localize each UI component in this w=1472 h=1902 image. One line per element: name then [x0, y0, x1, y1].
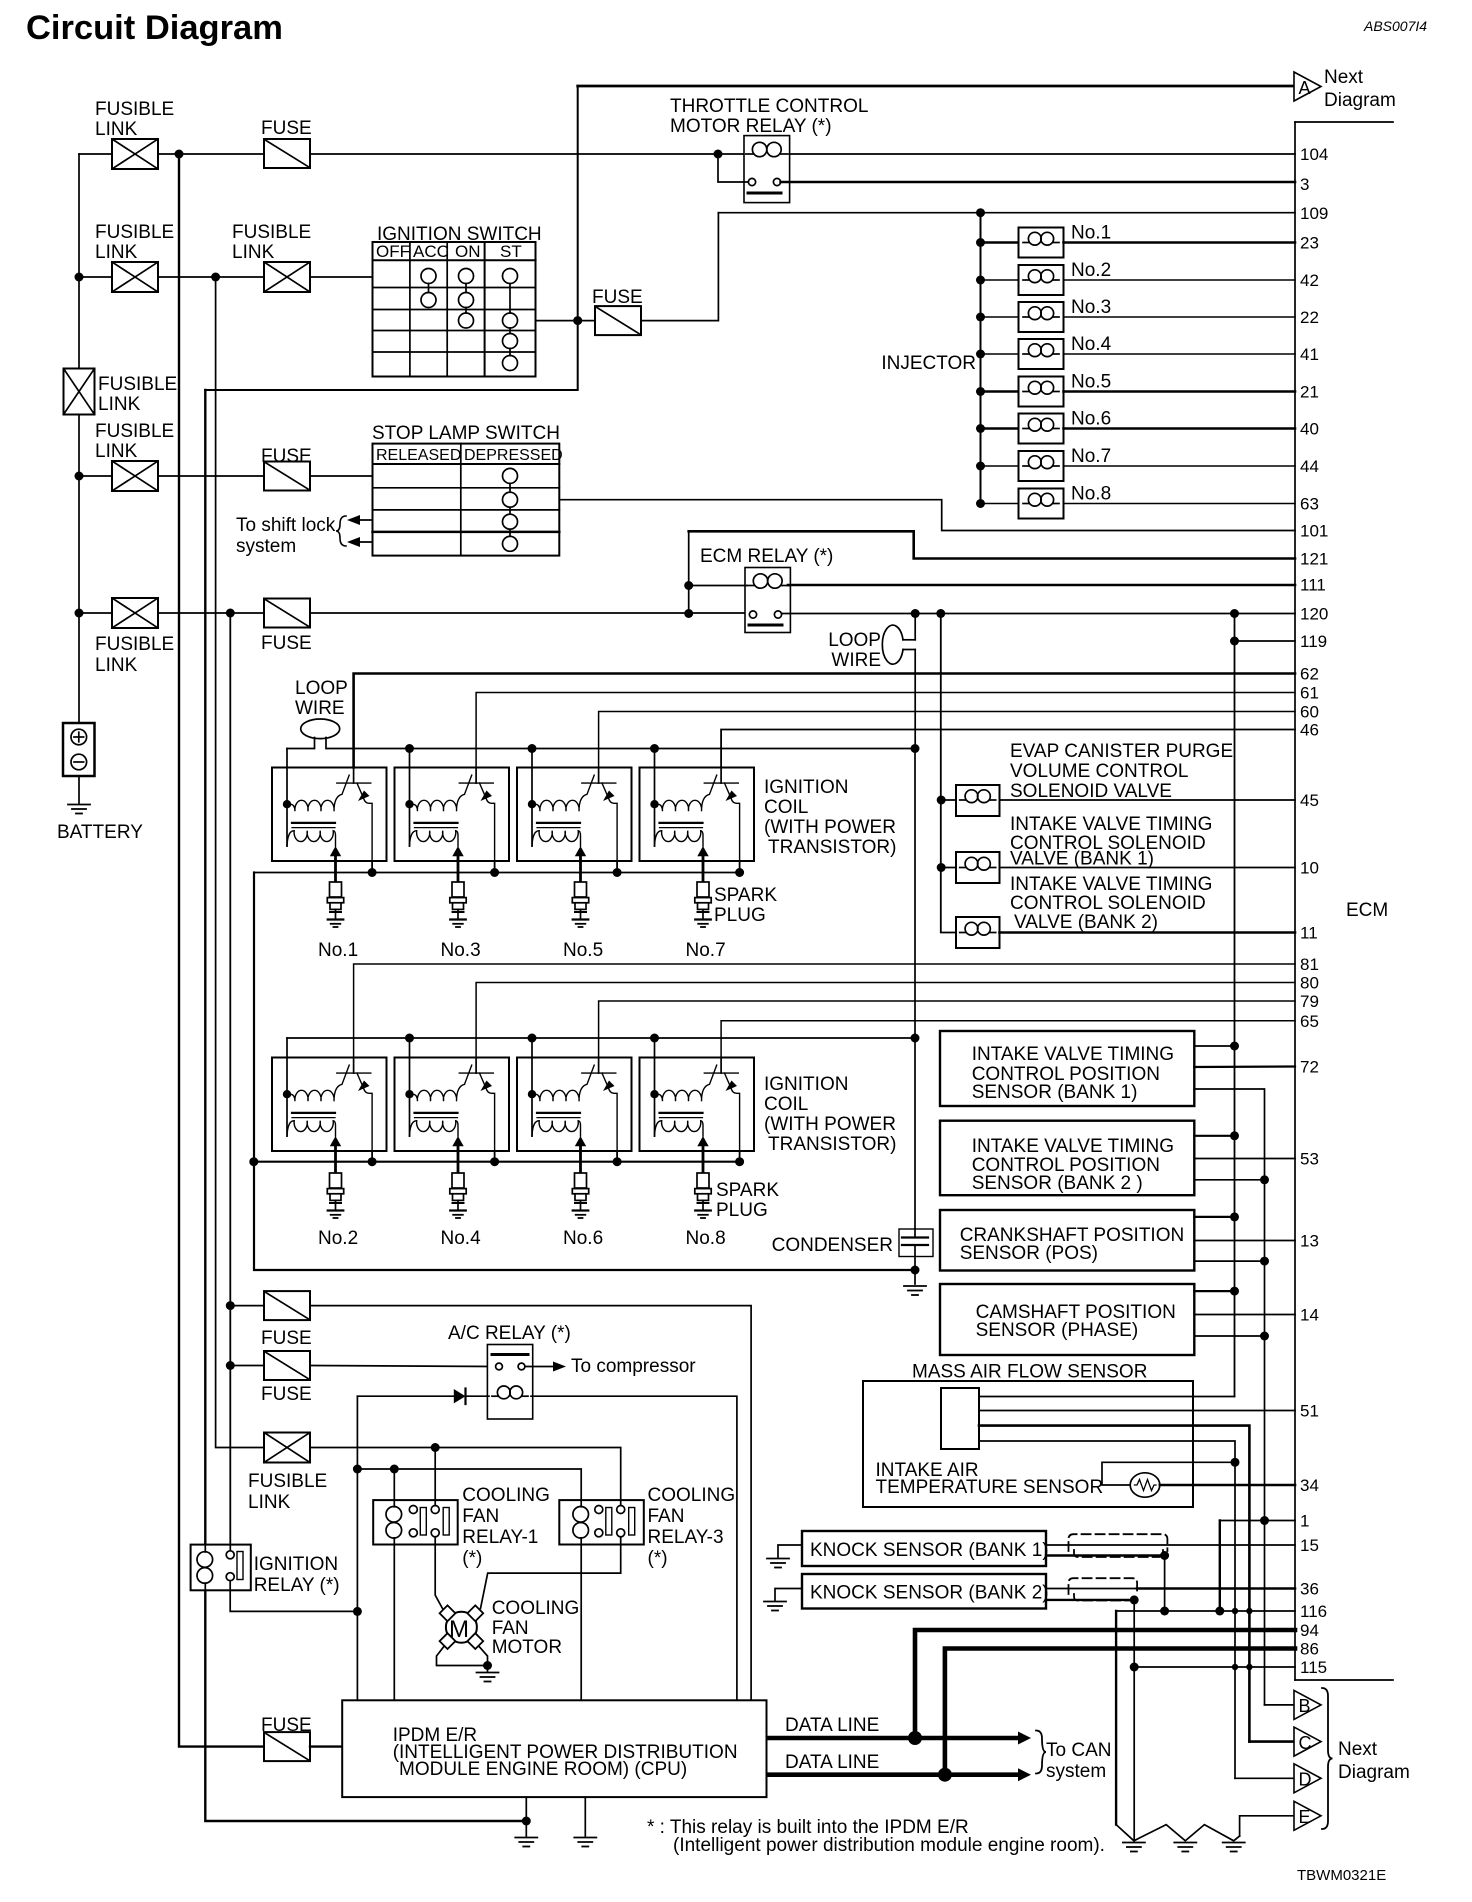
node ivt2 ground [1260, 1175, 1269, 1184]
ignition relay [191, 1545, 251, 1591]
wire emitter No.2 [371, 1151, 373, 1162]
svg-text:MASS AIR FLOW SENSOR: MASS AIR FLOW SENSOR [912, 1362, 1147, 1383]
svg-text:13: 13 [1300, 1232, 1319, 1251]
wire contact to pin120 [782, 613, 1295, 615]
svg-text:119: 119 [1300, 632, 1327, 651]
wire to arrow C [1249, 1740, 1294, 1743]
wire knock2 signal pin36 [1046, 1588, 1137, 1590]
svg-text:INTAKE VALVE TIMING: INTAKE VALVE TIMING [1010, 814, 1212, 835]
wire solenoid feeder x=941 [941, 614, 956, 933]
ground G1 [1123, 1843, 1145, 1852]
wire ivt2 ground [1194, 1179, 1264, 1181]
svg-text:SENSOR (POS): SENSOR (POS) [960, 1243, 1098, 1264]
svg-text:SPARK: SPARK [714, 885, 777, 906]
svg-text:INTAKE VALVE TIMING: INTAKE VALVE TIMING [972, 1044, 1174, 1065]
svg-text:LOOP: LOOP [295, 678, 348, 699]
svg-text:SENSOR (BANK 1): SENSOR (BANK 1) [972, 1082, 1138, 1103]
svg-text:FUSIBLE: FUSIBLE [248, 1471, 327, 1492]
node contact out 1 [911, 609, 920, 618]
ignition coil No.6 (with power transistor) [517, 1058, 632, 1152]
svg-text:(*): (*) [462, 1548, 482, 1569]
svg-text:(WITH POWER: (WITH POWER [764, 1114, 896, 1135]
svg-text:60: 60 [1300, 703, 1319, 722]
wire row A fuse to throttle relay [310, 153, 744, 155]
wire spark output No.2 [334, 1151, 337, 1173]
svg-text:CONTROL SOLENOID: CONTROL SOLENOID [1010, 893, 1206, 914]
wire to arrow B [1265, 1704, 1295, 1706]
injector No.2 [1019, 265, 1064, 295]
wire to arrow A [578, 85, 1294, 88]
wire injector No.1 to ECM [1064, 241, 1296, 244]
node solenoid feed 10 [937, 863, 946, 872]
ECM box bottom edge [1295, 1679, 1393, 1681]
wire row D y=476 [79, 475, 112, 477]
svg-text:104: 104 [1300, 145, 1328, 164]
wire ivt1 signal pin72 [1194, 1065, 1295, 1068]
svg-text:ECM RELAY (*): ECM RELAY (*) [700, 546, 833, 567]
node pin1 sensor ground [1260, 1516, 1269, 1525]
svg-text:(Intelligent power distributio: (Intelligent power distribution module e… [673, 1835, 1105, 1856]
svg-text:LOOP: LOOP [828, 630, 881, 651]
wire pin116 line [1116, 1610, 1295, 1612]
knock sensor bank2 [802, 1574, 1046, 1609]
loop wire at ECM relay [828, 614, 915, 672]
wire battery riser x=79 [78, 154, 80, 723]
svg-text:FAN: FAN [648, 1506, 685, 1527]
svg-text:23: 23 [1300, 234, 1319, 253]
ground G2 [1174, 1843, 1196, 1852]
fusible link cooling [264, 1433, 310, 1463]
svg-text:FUSIBLE: FUSIBLE [98, 374, 177, 395]
svg-text:42: 42 [1300, 271, 1319, 290]
wire injector No.4 to ECM [1064, 353, 1296, 355]
wire knock1 shield drop [1164, 1556, 1166, 1612]
node crossings at 115 [1232, 1664, 1238, 1670]
MAF box [863, 1381, 1193, 1507]
svg-text:81: 81 [1300, 955, 1319, 974]
fusible link row E [112, 598, 158, 628]
svg-text:COIL: COIL [764, 797, 808, 818]
svg-text:40: 40 [1300, 420, 1319, 439]
label crankshaft sensor [960, 1225, 1185, 1264]
ignition coil No.1 (with power transistor) [272, 768, 387, 862]
node shield1 to 116 [1160, 1607, 1169, 1616]
svg-text:14: 14 [1300, 1306, 1319, 1325]
svg-text:No.3: No.3 [1071, 297, 1111, 318]
node row B [75, 273, 84, 282]
node ST output junction [573, 316, 582, 325]
svg-text:MODULE ENGINE ROOM) (CPU): MODULE ENGINE ROOM) (CPU) [399, 1759, 687, 1780]
node row E [75, 609, 84, 618]
svg-text:No.1: No.1 [318, 940, 358, 961]
wire injector No.8 to ECM [1064, 503, 1296, 505]
svg-text:(WITH POWER: (WITH POWER [764, 817, 896, 838]
node IAT to sensor ground [1231, 1458, 1240, 1467]
svg-text:Diagram: Diagram [1338, 1762, 1410, 1783]
wire injector No.4 feed [981, 353, 1019, 355]
svg-text:3: 3 [1300, 175, 1309, 194]
wire MAF w1 [979, 1396, 1235, 1398]
wire crank supply [1194, 1216, 1234, 1218]
node data line 2 [938, 1768, 952, 1782]
svg-text:No.7: No.7 [1071, 446, 1111, 467]
wire spark output No.8 [702, 1151, 705, 1173]
intake valve timing control solenoid valve bank1 [956, 852, 1000, 883]
ignition coil No.5 (with power transistor) [517, 768, 632, 862]
svg-text:FUSIBLE: FUSIBLE [95, 421, 174, 442]
wire MAF w4 to D arrow [979, 1441, 1235, 1778]
wire pin119 line [1235, 640, 1296, 642]
spark plug No.2 [327, 1173, 343, 1218]
ground knock1 [778, 1545, 802, 1557]
wire cam supply [1194, 1290, 1234, 1292]
svg-text:51: 51 [1300, 1402, 1319, 1421]
node injector bus No.2 [976, 276, 985, 285]
cooling fan motor [440, 1605, 484, 1649]
wire spark output No.3 [457, 861, 460, 882]
ECM pin number labels [1300, 145, 1328, 1677]
svg-text:86: 86 [1300, 1640, 1319, 1659]
wire coil to pin111 [788, 584, 1295, 587]
svg-text:111: 111 [1300, 576, 1326, 595]
svg-text:PLUG: PLUG [716, 1200, 768, 1221]
node data line 1 [911, 1734, 920, 1743]
node injector bus No.1 [976, 238, 985, 247]
svg-text:ACC: ACC [413, 242, 449, 261]
IPDM box [342, 1700, 766, 1797]
wire relay1 contact to motor [435, 1545, 442, 1609]
ground knock2 [775, 1589, 802, 1601]
wire A/C coil return to IPDM [531, 1396, 737, 1700]
arrow B next diagram [1294, 1690, 1321, 1719]
intake valve timing control position sensor bank2 [940, 1121, 1194, 1196]
label cooling fan motor [492, 1598, 580, 1658]
node coil feed [405, 1034, 414, 1043]
svg-text:A: A [1299, 78, 1311, 98]
wire ivt1 ground [1194, 1089, 1264, 1705]
node riser at ignition relay out [353, 1607, 362, 1616]
svg-text:SPARK: SPARK [716, 1180, 779, 1201]
stop lamp switch table [373, 444, 560, 556]
wire emitter No.6 [616, 1151, 618, 1162]
wire row D fuse to stop lamp switch [310, 475, 373, 477]
brace to CAN [1036, 1731, 1046, 1774]
ignition coil No.4 (with power transistor) [395, 1058, 510, 1152]
svg-text:Next: Next [1324, 67, 1364, 88]
svg-text:BATTERY: BATTERY [57, 822, 143, 843]
fusible link row D [112, 461, 158, 491]
node IPDM ground junction [522, 1817, 531, 1826]
svg-text:INJECTOR: INJECTOR [881, 353, 976, 374]
wire injector No.1 feed [981, 241, 1019, 244]
wire transistor base No.5 to ECM [599, 712, 1295, 768]
svg-text:LINK: LINK [98, 394, 141, 415]
wire transistor base No.8 to ECM [721, 1021, 1295, 1058]
svg-text:RELAY-1: RELAY-1 [462, 1527, 538, 1548]
ignition coil No.3 (with power transistor) [395, 768, 510, 862]
svg-text:C: C [1299, 1733, 1312, 1753]
cooling fan relay-3 [559, 1500, 644, 1544]
fuse A/C row2 [264, 1351, 310, 1380]
arrow A next diagram [1294, 72, 1321, 101]
wire fuse row2 [230, 1365, 264, 1367]
ignition coil No.2 (with power transistor) [272, 1058, 387, 1152]
wire contact to pin3 [781, 181, 1295, 184]
thermistor IAT [1130, 1473, 1160, 1497]
node coil feed [650, 744, 659, 753]
injector No.4 [1019, 339, 1064, 369]
wire data line 1 [767, 1736, 1021, 1741]
brace to shift lock [336, 516, 346, 546]
svg-text:MOTOR: MOTOR [492, 1637, 562, 1658]
node coil feed [405, 744, 414, 753]
footnote [647, 1817, 1105, 1856]
svg-text:LINK: LINK [95, 119, 138, 140]
svg-text:OFF: OFF [376, 242, 410, 261]
battery [57, 723, 143, 843]
node contact out 2 [936, 609, 945, 618]
svg-text:STOP LAMP SWITCH: STOP LAMP SWITCH [372, 423, 560, 444]
wire ivt1 supply [1194, 1045, 1234, 1047]
node injector bus No.6 [976, 424, 985, 433]
wire injector No.6 to ECM [1064, 427, 1296, 430]
wire coil to pin104 [790, 153, 1295, 155]
wire emitter rail bank1 [254, 872, 740, 874]
spark plug No.6 [572, 1173, 588, 1218]
svg-text:KNOCK SENSOR (BANK 1): KNOCK SENSOR (BANK 1) [810, 1540, 1049, 1561]
svg-text:RELAY (*): RELAY (*) [254, 1575, 340, 1596]
wire row B y=277 [79, 276, 112, 278]
wavy ground bus [1116, 1825, 1240, 1841]
wire spark output No.5 [579, 861, 582, 882]
wire feed to evap valve [941, 799, 956, 801]
svg-text:EVAP CANISTER PURGE: EVAP CANISTER PURGE [1010, 741, 1233, 762]
ECM box top edge [1295, 121, 1393, 123]
svg-text:45: 45 [1300, 791, 1319, 810]
svg-text:E: E [1299, 1807, 1311, 1827]
node condenser ground junction [911, 1266, 920, 1275]
wire ST output [536, 320, 595, 322]
wire injector No.3 to ECM [1064, 316, 1296, 318]
fusible link row B [112, 262, 158, 292]
wire ground riser banks [254, 873, 915, 1271]
svg-text:VALVE (BANK 1): VALVE (BANK 1) [1010, 849, 1154, 870]
svg-text:116: 116 [1300, 1602, 1327, 1621]
wire injector No.8 feed [981, 503, 1019, 505]
svg-text:LINK: LINK [95, 441, 138, 462]
wire fuse to riser [641, 213, 718, 321]
wire transistor base No.1 to ECM [354, 674, 1295, 768]
wire emitter rail bank2 [254, 1161, 740, 1163]
wire spark output No.1 [334, 861, 337, 882]
svg-text:No.6: No.6 [1071, 409, 1111, 430]
svg-text:LINK: LINK [95, 242, 138, 263]
ECM left bus line [1294, 122, 1296, 1680]
wire contact drop [718, 154, 748, 182]
svg-text:FUSE: FUSE [261, 446, 312, 467]
svg-text:COOLING: COOLING [648, 1485, 736, 1506]
svg-text:No.4: No.4 [1071, 334, 1112, 355]
svg-text:SENSOR (PHASE): SENSOR (PHASE) [976, 1320, 1139, 1341]
svg-text:46: 46 [1300, 721, 1319, 740]
svg-text:No.6: No.6 [563, 1228, 603, 1249]
wire injector No.7 feed [981, 465, 1019, 467]
spark plug label bank1 [714, 885, 777, 926]
node injector bus No.7 [976, 462, 985, 471]
injector No.3 [1019, 302, 1064, 332]
wire fuse row1 [230, 1305, 264, 1307]
svg-text:1: 1 [1300, 1512, 1309, 1531]
svg-text:FUSIBLE: FUSIBLE [95, 222, 174, 243]
svg-text:121: 121 [1300, 550, 1328, 569]
svg-text:Circuit Diagram: Circuit Diagram [26, 9, 283, 47]
node coil feed [528, 1034, 537, 1043]
svg-text:34: 34 [1300, 1476, 1319, 1495]
node rail1 relay1 branch [431, 1443, 440, 1452]
fusible link vertical in battery riser [64, 369, 95, 415]
label ivt sensor bank1 [972, 1044, 1174, 1103]
node bus top [976, 208, 985, 217]
node coil feed [650, 1034, 659, 1043]
wire ignition relay contact out [230, 1581, 357, 1612]
wire to arrow E [1240, 1816, 1294, 1836]
node injector bus No.8 [976, 499, 985, 508]
fuse row D (stop lamp) [264, 462, 310, 491]
svg-text:TRANSISTOR): TRANSISTOR) [768, 1134, 896, 1155]
svg-text:WIRE: WIRE [831, 650, 881, 671]
svg-text:COIL: COIL [764, 1094, 808, 1115]
wire coil supply rail bank2 [286, 1038, 288, 1058]
node row D [75, 472, 84, 481]
node coil feed [528, 744, 537, 753]
svg-text:VOLUME CONTROL: VOLUME CONTROL [1010, 761, 1188, 782]
svg-text:Next: Next [1338, 1739, 1378, 1760]
node injector bus No.5 [976, 387, 985, 396]
IPDM fuse [264, 1732, 310, 1761]
svg-text:41: 41 [1300, 345, 1319, 364]
ground IPDM 1 [515, 1838, 537, 1847]
crankshaft position sensor (POS) [940, 1210, 1194, 1271]
wire coil row [689, 585, 747, 587]
wire IPDM ground 2 [584, 1797, 586, 1836]
svg-text:FAN: FAN [462, 1506, 499, 1527]
wire ivt2 signal pin53 [1194, 1158, 1295, 1160]
svg-text:Diagram: Diagram [1324, 90, 1396, 111]
svg-text:THROTTLE CONTROL: THROTTLE CONTROL [670, 96, 868, 117]
svg-text:FUSE: FUSE [261, 118, 312, 139]
svg-text:SENSOR (BANK 2 ): SENSOR (BANK 2 ) [972, 1173, 1143, 1194]
intake valve timing control solenoid valve bank2 [956, 917, 1000, 948]
wire feed to ivt valve bank1 [941, 867, 956, 869]
wire row1 to IPDM [310, 1306, 751, 1701]
relay coil [746, 142, 788, 156]
svg-text:No.5: No.5 [1071, 372, 1111, 393]
fuse A/C row1 [264, 1291, 310, 1320]
svg-text:A/C RELAY (*): A/C RELAY (*) [448, 1323, 571, 1344]
wire cooling rail2 [357, 1469, 581, 1500]
wire relay1 contact feed [434, 1448, 436, 1501]
injector No.8 [1019, 489, 1064, 519]
wire emitter No.7 [739, 861, 741, 873]
svg-text:DATA LINE: DATA LINE [785, 1715, 879, 1736]
node solenoid feed 45 [937, 796, 946, 805]
svg-text:FUSE: FUSE [261, 1715, 312, 1736]
wire injector No.3 feed [981, 316, 1019, 318]
svg-text:IGNITION: IGNITION [764, 1074, 848, 1095]
wire row E mid [158, 612, 264, 614]
svg-text:FUSIBLE: FUSIBLE [95, 99, 174, 120]
svg-text:TRANSISTOR): TRANSISTOR) [768, 837, 896, 858]
node row B junction [211, 273, 220, 282]
wire emitter No.8 [739, 1151, 741, 1162]
svg-text:To shift lock: To shift lock [236, 515, 336, 536]
svg-text:ON: ON [455, 242, 481, 261]
wire transistor base No.4 to ECM [476, 983, 1295, 1058]
svg-text:No.2: No.2 [1071, 260, 1111, 281]
cooling fan relay-1 [373, 1500, 458, 1544]
wire pin115 line [1134, 1666, 1295, 1668]
injector No.6 [1019, 414, 1064, 444]
svg-text:COOLING: COOLING [462, 1485, 550, 1506]
wire coil supply vertical to condenser [914, 749, 916, 1238]
relay contact [749, 611, 782, 625]
fuse row E [264, 599, 310, 628]
wire spark output No.6 [579, 1151, 582, 1173]
svg-text:44: 44 [1300, 457, 1319, 476]
svg-text:IGNITION: IGNITION [764, 777, 848, 798]
spark plug No.1 [327, 882, 343, 927]
svg-text:M: M [449, 1616, 469, 1643]
wire transistor base No.2 to ECM [354, 964, 1295, 1058]
label intake air temperature sensor [876, 1460, 1104, 1498]
arrow D next diagram [1294, 1764, 1321, 1793]
node pin1 riser at 116 [1215, 1607, 1224, 1616]
node feed junction [714, 150, 723, 159]
svg-text:22: 22 [1300, 308, 1319, 327]
ground cooling fan motor [487, 1666, 489, 1672]
svg-text:15: 15 [1300, 1536, 1319, 1555]
svg-text:CONDENSER: CONDENSER [772, 1235, 893, 1256]
svg-text:(*): (*) [648, 1548, 668, 1569]
arrow C next diagram [1294, 1727, 1321, 1756]
wire row A to fuse [158, 153, 264, 155]
wire spark output No.4 [457, 1151, 460, 1173]
wire loop line down to coil rail 1 [914, 650, 916, 749]
node sensor-ground crossing 116 [1232, 1608, 1238, 1614]
node cam ground [1260, 1332, 1269, 1341]
diode [454, 1389, 466, 1403]
svg-text:system: system [1046, 1761, 1106, 1782]
svg-text:TBWM0321E: TBWM0321E [1297, 1867, 1386, 1884]
svg-text:79: 79 [1300, 992, 1319, 1011]
node contact row [684, 609, 693, 618]
svg-text:109: 109 [1300, 204, 1328, 223]
node injector bus No.4 [976, 350, 985, 359]
camshaft position sensor (PHASE) [940, 1284, 1194, 1355]
node A/C fuse row2 [226, 1361, 235, 1370]
arrow E next diagram [1294, 1801, 1321, 1830]
wire injector No.2 feed [981, 279, 1019, 281]
svg-text:FAN: FAN [492, 1618, 529, 1639]
svg-text:LINK: LINK [232, 242, 275, 263]
wire A/C coil feed with diode [357, 1395, 453, 1397]
svg-text:FUSIBLE: FUSIBLE [232, 222, 311, 243]
svg-text:COOLING: COOLING [492, 1598, 580, 1619]
svg-text:SOLENOID VALVE: SOLENOID VALVE [1010, 781, 1172, 802]
wire ivt valve bank2 to pin11 [1000, 931, 1296, 934]
svg-text:RELEASED: RELEASED [376, 447, 461, 464]
wire transistor base No.7 to ECM [721, 730, 1295, 768]
